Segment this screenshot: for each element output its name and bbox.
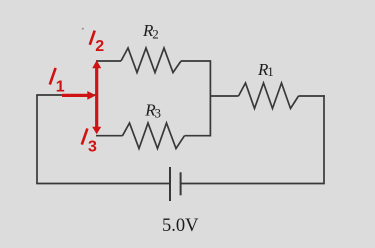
- svg-text:3: 3: [155, 105, 162, 120]
- current arrow I3 head (down): [92, 127, 101, 135]
- wire: middle horizontal right lead: [299, 95, 325, 97]
- wire: top branch right lead: [181, 60, 210, 62]
- wire: bottom branch left lead: [96, 135, 123, 137]
- current arrow I1 shaft: [62, 94, 88, 97]
- label I3 italic stroke: [82, 129, 88, 145]
- stray dot artifact: [82, 28, 84, 30]
- current arrow I2 head (up): [92, 60, 101, 68]
- wire: bottom right segment: [181, 183, 324, 185]
- wire: top branch left lead: [96, 60, 121, 62]
- wire: bottom branch right lead: [185, 135, 211, 137]
- current arrow I2/I3 vertical shaft: [95, 67, 98, 129]
- resistor R3 zigzag: [123, 123, 185, 149]
- current arrow I1 head: [87, 91, 96, 100]
- wire: right rail: [323, 95, 325, 184]
- svg-text:1: 1: [267, 64, 274, 79]
- label I2 italic stroke: [90, 31, 95, 45]
- battery 5.0V long plate: [169, 167, 171, 201]
- svg-text:2: 2: [95, 38, 104, 55]
- svg-text:3: 3: [88, 139, 97, 156]
- svg-text:2: 2: [152, 27, 159, 42]
- label I1 italic stroke: [50, 68, 56, 85]
- resistor R1 zigzag: [239, 83, 299, 109]
- svg-text:5.0V: 5.0V: [162, 216, 199, 236]
- svg-text:1: 1: [56, 79, 65, 96]
- wire: left horizontal to node A: [36, 94, 97, 96]
- wire: bottom left segment: [36, 183, 170, 185]
- resistor R2 zigzag: [121, 48, 181, 73]
- wire: left rail: [36, 95, 38, 184]
- wire: parallel-section right vertical: [209, 60, 211, 136]
- battery 5.0V short plate: [180, 172, 182, 195]
- wire: middle horizontal left lead to R1: [210, 95, 238, 97]
